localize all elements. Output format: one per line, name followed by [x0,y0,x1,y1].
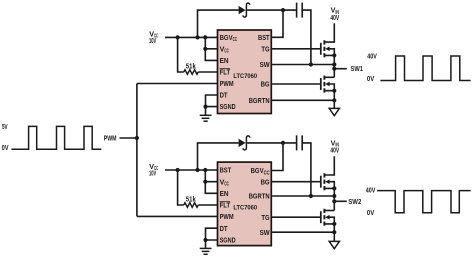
wire VCC rail to BST pin (bottom) [165,169,218,171]
wire C1 to SW node [302,10,311,64]
svg-text:BGRTN: BGRTN [249,96,270,105]
transistor Q4 (bottom low-side NMOS) [321,209,337,233]
junction dot BGRTN (top) [332,98,336,102]
bootstrap capacitor C2 [297,135,303,150]
svg-text:SW: SW [260,228,270,237]
waveform PWM input 5V [11,126,101,149]
wire C2 to BGRTN node [302,143,311,196]
svg-text:40V: 40V [367,51,377,60]
wire SW pin to switch node (top) [272,64,335,66]
svg-text:BG: BG [261,177,270,186]
junction dot C2/BGRTN [309,194,313,198]
U1 pin FLT [220,68,231,77]
power ground U2 [329,241,339,248]
svg-text:PWM: PWM [104,134,117,143]
schottky diode D1 [239,3,250,17]
op-amp U1 LTC7060 body [218,30,272,114]
svg-text:LTC7060: LTC7060 [233,204,257,211]
wire switch node to Q2 drain [333,65,335,78]
wire BGRTN to Q2 source [272,99,335,101]
wire VCC rail up to diode anode (top) [198,10,239,37]
junction dot VCC pin (top) [203,47,207,51]
junction dot VCC/EN branch (top) [203,35,207,39]
junction dot VCC/EN branch (bottom) [203,168,207,172]
wire VCC rail to BGVCC pin (top) [165,36,218,38]
svg-text:BG: BG [261,80,270,89]
svg-text:DT: DT [220,224,228,233]
wire VCC/EN branch (bottom) [205,170,217,193]
svg-text:0V: 0V [367,74,374,83]
wire VCC/EN branch (top) [205,37,217,60]
signal ground U1 [200,115,212,121]
junction dot SGND (top) [203,105,207,109]
wire BG to Q2 gate [272,83,321,85]
svg-text:0V: 0V [367,208,374,217]
svg-text:DT: DT [220,91,228,100]
op-amp U2 LTC7060 body [218,162,272,246]
svg-text:TG: TG [261,44,270,53]
svg-text:40V: 40V [366,186,376,195]
wire PWM stub [120,137,137,139]
svg-text:BST: BST [220,166,232,175]
wire VCC rail up to diode anode (bottom) [198,143,239,170]
wire DT-SGND tie (top) [206,95,218,115]
wire to power ground (bottom) [333,232,335,241]
wire to power ground (top) [333,100,335,108]
wire R2 to FLT pin (bottom) [198,204,217,206]
node SW1 [332,64,363,73]
svg-text:PWM: PWM [220,79,234,88]
junction dot PWM [135,136,139,140]
junction dot SGND (bottom) [203,238,207,242]
wire PWM to U2 [137,215,218,217]
svg-text:TG: TG [261,213,270,222]
schottky diode D2 [239,136,250,150]
junction dot diode branch (bottom) [195,168,199,172]
wire BST pin riser [272,10,284,37]
label VIN 40V (top) [330,6,339,22]
wire rail down to R2 (bottom) [178,170,184,205]
resistor R1 [184,70,198,75]
wire BGRTN to switch node (bottom) [272,195,335,197]
svg-text:SGND: SGND [220,235,236,244]
label VIN 40V (bottom) [330,139,339,155]
wire R1 to FLT pin (top) [198,71,217,73]
wire TG to Q1 gate [272,48,321,50]
junction dot C1/SW [309,62,313,66]
waveform SW2 output [377,191,471,213]
svg-text:LTC7060: LTC7060 [233,73,257,80]
power ground U1 [329,108,339,115]
signal ground U2 [200,248,212,254]
bootstrap capacitor C1 [297,3,303,18]
svg-text:EN: EN [220,189,229,198]
waveform SW1 output [380,56,470,81]
resistor R2 [184,203,198,208]
wire DT-SGND tie (bottom) [206,228,218,248]
U2 pin FLT [220,201,231,210]
wire BGVCC pin riser [272,143,284,171]
svg-text:SW1: SW1 [351,64,363,73]
svg-text:BST: BST [258,33,270,42]
node SW2 [332,197,361,206]
wire BG to Q3 gate [272,181,321,183]
svg-text:SW2: SW2 [348,197,361,206]
svg-text:40V: 40V [330,13,339,22]
svg-text:SW: SW [260,60,270,69]
wire PWM bus vertical [136,84,138,217]
junction dot BGVCC riser [281,141,285,145]
svg-text:10V: 10V [149,168,156,177]
svg-text:51k: 51k [186,194,196,203]
wire SW pin to Q4 source (bottom) [272,231,335,233]
junction dot SW/Q4 source (bottom) [332,230,336,234]
wire PWM to U1 [137,83,218,85]
junction dot R2 branch (bottom) [176,168,180,172]
svg-text:0V: 0V [2,143,9,152]
junction dot BGRTN/Q3 source [332,194,336,198]
label VCC 10V (bottom) [149,162,159,177]
svg-text:51k: 51k [186,61,196,70]
junction dot SW/Q1 source [332,62,336,66]
wire D2 cathode to C2 [247,142,297,144]
svg-text:5V: 5V [2,122,8,131]
transistor Q3 (bottom high-side NMOS) [321,156,337,196]
wire switch node to Q4 drain (bottom) [333,196,335,211]
transistor Q1 (top high-side NMOS) [321,23,337,64]
wire TG to Q4 gate [272,216,321,218]
svg-text:40V: 40V [330,146,339,155]
svg-text:PWM: PWM [220,212,234,221]
junction dot diode branch (top) [195,35,199,39]
svg-text:SGND: SGND [220,102,236,111]
junction dot BST riser [281,8,285,12]
junction dot R1 branch (top) [176,35,180,39]
transistor Q2 (top low-side NMOS) [321,76,337,101]
junction dot VCC pin (bottom) [203,180,207,184]
wire rail down to R1 (top) [178,37,184,72]
svg-text:BGRTN: BGRTN [249,192,270,201]
wire D1 cathode to C1 [247,9,297,11]
label VCC 10V (top) [149,29,159,44]
svg-text:EN: EN [220,56,229,65]
svg-text:10V: 10V [149,36,156,45]
